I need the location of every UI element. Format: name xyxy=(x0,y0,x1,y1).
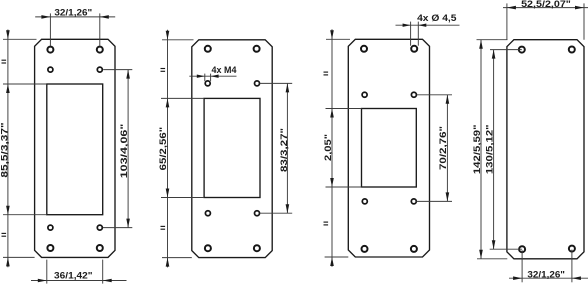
svg-text:70/2,76": 70/2,76" xyxy=(438,126,449,170)
equal-spacing symbol xyxy=(161,68,166,70)
dimension 65/2,56 left of panel 2 with equal marks xyxy=(162,39,194,41)
dimension 103/4,06 right of panel 1 xyxy=(103,69,132,71)
cutout P3 xyxy=(362,109,417,188)
plate P1 outline xyxy=(35,39,115,257)
svg-text:2,05": 2,05" xyxy=(323,134,334,161)
hole P4 top-left xyxy=(519,47,525,53)
plate P3 outline xyxy=(348,39,429,257)
hole P3 mid-low-left xyxy=(362,199,367,204)
equal-spacing symbol xyxy=(324,221,329,223)
panel 4 group xyxy=(472,0,588,282)
hole P2 top-left xyxy=(205,46,211,52)
hole P2 bot-left xyxy=(205,245,211,251)
hole P2 top-right xyxy=(254,46,260,52)
svg-text:52,5/2,07": 52,5/2,07" xyxy=(521,0,571,10)
dimension 52,5/2,07 top of panel 4 xyxy=(506,3,508,39)
svg-text:36/1,42": 36/1,42" xyxy=(54,270,93,281)
hole P3 bot-left xyxy=(362,246,368,252)
dimension 85,5/3,37 left of panel 1 with equal marks xyxy=(3,38,37,40)
equal-spacing symbol xyxy=(2,232,7,234)
hole P1 top-right xyxy=(97,47,103,53)
plate P4 outline xyxy=(507,40,584,259)
dimension 36/1,42 bottom of panel 1 xyxy=(46,260,48,284)
hole P3 bot-right xyxy=(411,246,417,252)
hole P2 bot-right xyxy=(254,245,260,251)
svg-text:32/1,26": 32/1,26" xyxy=(54,7,92,18)
hole P3 mid-low-right xyxy=(411,199,416,204)
dimension 70/2,76 right of panel 3 xyxy=(417,94,452,96)
hole P3 top-right xyxy=(411,46,417,52)
dimension 32/1,26 top of panel 1 xyxy=(49,13,51,46)
svg-text:32/1,26": 32/1,26" xyxy=(527,269,565,280)
hole P3 mid-up-right xyxy=(411,92,416,97)
cutout P2 xyxy=(204,98,260,197)
dimension 2,05 left of panel 3 with equal marks xyxy=(326,38,350,40)
panel 2 group xyxy=(158,30,292,268)
hole P2 mid-up-right xyxy=(255,81,260,86)
hole P2 mid-low-right xyxy=(255,211,260,216)
hole P2 mid-low-left xyxy=(205,211,210,216)
equal-spacing symbol xyxy=(161,225,166,227)
svg-text:130/5,12": 130/5,12" xyxy=(485,124,496,174)
dimension 130/5,12 left inner of panel 4 xyxy=(490,49,522,51)
dimension 32/1,26 bottom of panel 4 xyxy=(521,250,523,282)
svg-text:4x Ø 4,5: 4x Ø 4,5 xyxy=(417,13,457,24)
svg-text:65/2,56": 65/2,56" xyxy=(158,127,169,171)
hole P2 mid-up-left xyxy=(205,81,210,86)
hole P4 top-right xyxy=(569,47,575,53)
svg-text:85,5/3,37": 85,5/3,37" xyxy=(0,122,10,177)
hole P1 mid-up-right xyxy=(97,67,102,72)
svg-text:142/5,59": 142/5,59" xyxy=(472,124,483,174)
panel 1 group xyxy=(0,7,132,283)
hole P4 bot-left xyxy=(519,246,525,252)
svg-text:4x M4: 4x M4 xyxy=(212,65,238,76)
hole P1 mid-low-left xyxy=(48,225,53,230)
svg-text:83/3,27": 83/3,27" xyxy=(279,128,290,172)
hole P1 top-left xyxy=(47,47,53,53)
svg-text:103/4,06": 103/4,06" xyxy=(119,124,130,179)
hole P1 bot-right xyxy=(97,245,103,251)
panel 3 group xyxy=(323,13,460,267)
hole P3 top-left xyxy=(361,46,367,52)
equal-spacing symbol xyxy=(2,59,7,61)
plate P2 outline xyxy=(192,40,272,258)
callout 4x Ø 4,5 on panel 3 xyxy=(410,22,412,46)
cutout P1 xyxy=(47,84,103,215)
hole P4 bot-right xyxy=(569,246,575,252)
dimension 83/3,27 right of panel 2 xyxy=(260,82,293,84)
callout 4x M4 on panel 2 xyxy=(204,74,206,82)
hole P3 mid-up-left xyxy=(362,92,367,97)
hole P1 mid-low-right xyxy=(97,225,102,230)
equal-spacing symbol xyxy=(324,71,329,73)
hole P1 bot-left xyxy=(47,245,53,251)
hole P1 mid-up-left xyxy=(48,67,53,72)
dimension 142/5,59 left of panel 4 xyxy=(477,39,508,41)
